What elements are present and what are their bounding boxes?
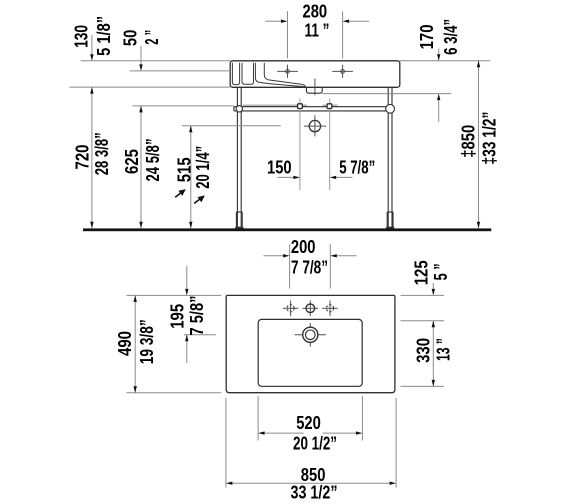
dim 125 leader xyxy=(432,283,434,289)
bolt centerline left xyxy=(299,99,301,190)
extension lines 200 xyxy=(289,244,291,288)
svg-text:5 ”: 5 ” xyxy=(431,263,451,280)
console leg left xyxy=(236,88,242,227)
extension line plan top left xyxy=(126,294,221,296)
dim 170 leader bottom xyxy=(438,100,440,122)
basin plan outline xyxy=(226,295,395,392)
dim 625 line xyxy=(140,106,142,228)
extension line basin top right xyxy=(400,60,491,62)
dim 850 line xyxy=(478,61,480,229)
siphon drain circle xyxy=(309,120,320,131)
svg-text:50: 50 xyxy=(120,30,140,46)
extension line 195 xyxy=(184,334,216,336)
svg-text:150: 150 xyxy=(267,157,292,177)
faucet hole mark left xyxy=(277,65,298,78)
extension lines 520 xyxy=(257,396,259,440)
drain crosshair xyxy=(295,323,326,347)
drain inner circle xyxy=(306,330,316,340)
leader arrow 515 xyxy=(175,192,182,198)
svg-text:330: 330 xyxy=(413,338,433,363)
console leg right xyxy=(387,88,393,227)
dim 5 7/8 arrow xyxy=(336,176,352,178)
back rail gray band xyxy=(243,105,307,108)
faucet hole mark right xyxy=(332,65,353,78)
svg-text:33 1/2”: 33 1/2” xyxy=(291,482,338,502)
svg-text:625: 625 xyxy=(122,149,142,174)
svg-text:720: 720 xyxy=(73,145,93,170)
svg-text:24 5/8”: 24 5/8” xyxy=(143,139,163,182)
dim 200 arrows xyxy=(264,255,284,257)
extension line bowl bottom right xyxy=(401,385,445,387)
svg-text:280: 280 xyxy=(303,2,328,22)
svg-text:170: 170 xyxy=(417,24,437,49)
dim 850 plan line xyxy=(226,482,233,485)
svg-text:‡33 1/2”: ‡33 1/2” xyxy=(480,112,500,165)
bolt centerline right xyxy=(329,99,331,190)
faucet hole right (optional) xyxy=(322,300,337,316)
svg-text:2 ”: 2 ” xyxy=(142,30,162,45)
svg-text:7 7/8”: 7 7/8” xyxy=(291,258,328,278)
svg-text:‡850: ‡850 xyxy=(458,125,478,158)
extension line plan top right xyxy=(401,294,445,296)
rail tube xyxy=(234,107,394,111)
dim 150 arrow xyxy=(277,176,293,178)
extension line basin bottom xyxy=(70,86,231,88)
svg-text:130: 130 xyxy=(71,25,91,48)
extension lines 850 xyxy=(225,398,227,488)
extension line 170 bottom xyxy=(322,93,451,95)
drain centerline xyxy=(314,79,316,96)
svg-text:5 7/8”: 5 7/8” xyxy=(339,157,375,177)
faucet hole centre xyxy=(303,300,318,316)
svg-text:13 ”: 13 ” xyxy=(434,338,454,361)
svg-text:125: 125 xyxy=(412,260,432,285)
dim 50 leader xyxy=(140,46,142,65)
dim 520 line xyxy=(258,431,265,434)
svg-text:19 3/8”: 19 3/8” xyxy=(137,319,157,364)
extension line 515 xyxy=(182,125,281,127)
svg-text:20 1/4”: 20 1/4” xyxy=(193,146,213,189)
bolt square right xyxy=(327,104,332,109)
drain boss xyxy=(306,87,322,93)
washbasin body (section) xyxy=(230,61,400,88)
section rim band 2 xyxy=(242,63,254,85)
dim 330 line xyxy=(432,321,434,387)
svg-text:200: 200 xyxy=(291,237,316,257)
svg-text:20 1/2”: 20 1/2” xyxy=(293,434,337,454)
floor line xyxy=(83,228,491,231)
dim 490 line xyxy=(134,295,136,392)
bolt square left xyxy=(298,104,303,109)
section rim band 1 xyxy=(232,63,239,85)
extension line 625 xyxy=(133,105,234,107)
extension line bowl top right xyxy=(401,320,445,322)
svg-text:195: 195 xyxy=(168,304,188,329)
dim 720 line xyxy=(91,87,93,228)
bowl outline xyxy=(258,319,362,386)
svg-text:11 ”: 11 ” xyxy=(305,21,330,41)
dim 280 arrows xyxy=(265,20,281,22)
extension line plan bottom left xyxy=(126,392,221,394)
svg-text:7 5/8”: 7 5/8” xyxy=(187,296,207,336)
extension lines 280 xyxy=(287,11,289,58)
svg-text:515: 515 xyxy=(175,157,195,182)
siphon crosshair xyxy=(304,115,326,136)
svg-text:5 1/8”: 5 1/8” xyxy=(94,16,114,56)
svg-text:6 3/4”: 6 3/4” xyxy=(441,19,461,55)
svg-text:490: 490 xyxy=(115,331,135,356)
section bowl inner xyxy=(264,63,305,87)
leg ring right xyxy=(386,104,395,113)
dim 170 leader top xyxy=(438,49,440,55)
dim 130 leader xyxy=(91,35,93,54)
svg-text:520: 520 xyxy=(296,413,321,433)
dim 515 line xyxy=(190,126,192,229)
drain outer circle xyxy=(303,327,318,342)
extension line 50 xyxy=(130,70,230,72)
faucet hole left (optional) xyxy=(283,300,298,316)
leader arrow 20 1/4 xyxy=(194,198,201,204)
dim 195 leaders xyxy=(186,266,188,289)
leg ring left xyxy=(236,106,242,112)
svg-text:28 3/8”: 28 3/8” xyxy=(92,132,112,175)
extension line basin top left xyxy=(81,60,231,62)
section bowl outer xyxy=(255,63,305,87)
